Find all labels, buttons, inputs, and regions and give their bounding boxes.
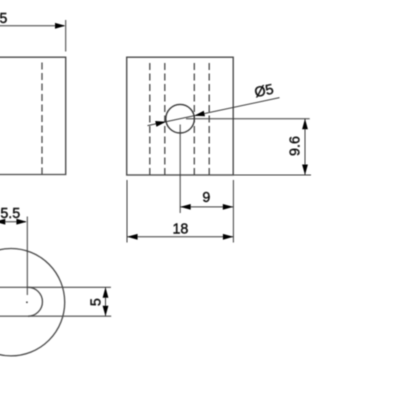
slot bottom edge / extension line	[0, 315, 111, 317]
svg-text:15: 15	[0, 11, 7, 27]
dimension 5 (right of bottom view, vertical)	[88, 287, 108, 316]
svg-text:18: 18	[172, 221, 188, 237]
svg-text:Ø5: Ø5	[253, 82, 275, 102]
svg-text:9: 9	[202, 190, 210, 206]
bottom view big circle (clipped at left)	[0, 249, 65, 356]
dimension 9 (below front view)	[180, 180, 233, 243]
side view hidden line (dashed)	[41, 63, 43, 175]
front view hidden lines (dashed)	[150, 63, 209, 175]
slot top edge / extension line	[0, 286, 111, 288]
dimension 9.6 (right side vertical)	[186, 119, 311, 175]
side view outline (top-left block, clipped at left)	[0, 57, 66, 174]
slot right cap arc	[28, 287, 42, 316]
hole vertical centerline	[179, 125, 181, 214]
svg-text:9.6: 9.6	[288, 136, 304, 156]
svg-text:5.5: 5.5	[0, 206, 20, 222]
svg-text:5: 5	[88, 298, 104, 306]
slot center mark	[26, 301, 28, 303]
front view outline (center block)	[127, 57, 234, 175]
hole circle O5	[166, 104, 195, 133]
dimension 15 (top-left, partially clipped)	[0, 11, 66, 52]
dimension 18 (below front view)	[127, 180, 233, 243]
dimension 5.5 (above bottom view, clipped at left)	[0, 206, 27, 295]
diameter leader O5	[148, 82, 280, 127]
